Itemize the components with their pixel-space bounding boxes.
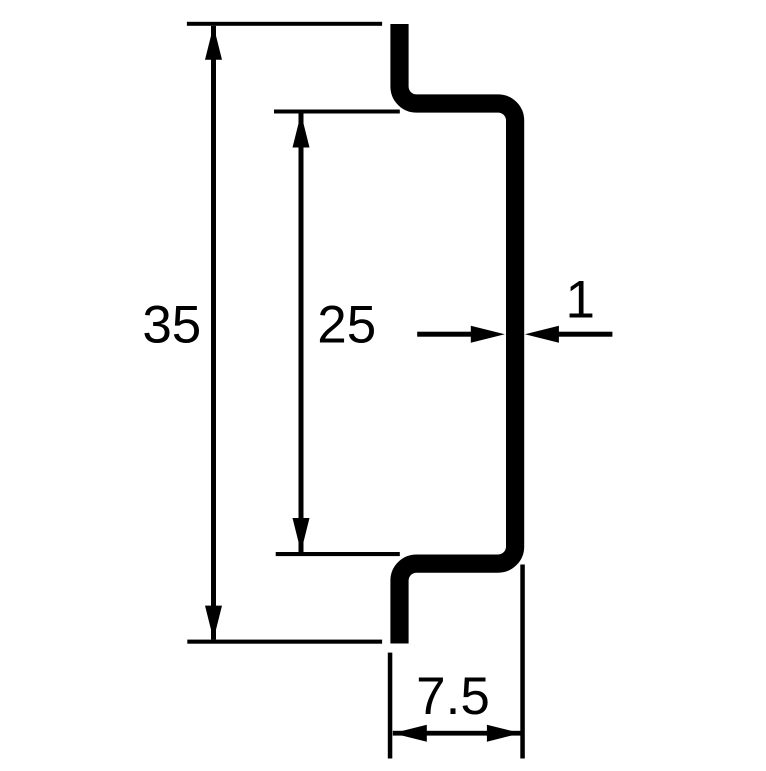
svg-text:35: 35	[142, 296, 201, 355]
extension line left of 7.5 dimension	[388, 653, 393, 759]
left leader line of 1 dimension	[417, 332, 472, 337]
dimension line 25	[299, 114, 304, 553]
extension line right of 7.5 dimension	[520, 565, 525, 759]
dimension line 7.5	[393, 731, 521, 736]
svg-text:7.5: 7.5	[416, 667, 490, 726]
svg-text:1: 1	[565, 271, 594, 330]
arrowhead down of 25 dimension	[293, 518, 310, 552]
dimension line 35	[211, 26, 216, 640]
DIN rail top-hat profile cross-section	[400, 24, 516, 644]
right arrowhead of 1 dimension	[525, 326, 559, 343]
left arrowhead of 7.5 dimension	[393, 725, 427, 742]
right leader line of 1 dimension	[558, 332, 612, 337]
arrowhead up of 35 dimension	[205, 26, 222, 60]
extension line top of 25 dimension	[274, 110, 400, 114]
extension line top of 35 dimension	[187, 22, 382, 26]
extension line bottom of 35 dimension	[187, 640, 382, 644]
svg-text:25: 25	[317, 296, 376, 355]
left arrowhead of 1 dimension	[471, 326, 505, 343]
right arrowhead of 7.5 dimension	[487, 725, 521, 742]
arrowhead down of 35 dimension	[205, 606, 222, 640]
arrowhead up of 25 dimension	[293, 114, 310, 148]
extension line bottom of 25 dimension	[276, 552, 400, 556]
